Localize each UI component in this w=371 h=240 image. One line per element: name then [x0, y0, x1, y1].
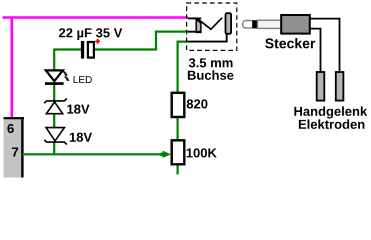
connector box pins 6/7 [4, 117, 25, 178]
wire green: zener 2 to pin 7 wire [53, 142, 55, 155]
value label 100K [187, 148, 217, 157]
dashed outline around jack [187, 3, 237, 50]
cable wire 2 (inner) to left electrode [310, 29, 321, 72]
value label 18V (lower zener) [70, 133, 92, 142]
LED [45, 70, 69, 84]
resistor 820 [172, 93, 185, 117]
capacitor 22µF/35V [81, 41, 94, 59]
wire green: LED chain top, to capacitor left plate [54, 50, 81, 71]
label Elektroden [299, 119, 365, 129]
resistor 100K [172, 140, 185, 164]
plug (Stecker) drawing [243, 15, 310, 34]
wire green: capacitor right plate to jack middle contact [95, 32, 188, 50]
wire green: pin 7 horizontal with arrowhead into 100K [22, 151, 171, 158]
wire green: zener 1 to zener 2 [53, 113, 55, 128]
cable wire 1 (outer) to right electrode [310, 19, 340, 72]
zener diode 18V lower (cathode down) [44, 128, 67, 145]
label 3.5 mm [189, 58, 233, 67]
wire magenta horizontal (pin 6 net to jack tip) [3, 16, 189, 19]
wire green: LED cathode to zener 1 [53, 84, 55, 102]
label Handgelenk [294, 106, 367, 118]
zener diode 18V upper (cathode up) [44, 99, 67, 114]
jack socket 3.5mm (symbol) [188, 13, 231, 41]
value label 18V (upper zener) [67, 105, 89, 114]
electrode right [336, 72, 344, 101]
pin label 6 [7, 124, 13, 133]
value label 820 [187, 99, 208, 108]
LED label [74, 76, 92, 83]
wire green: between 820 and 100K [177, 118, 179, 141]
label Stecker [265, 38, 315, 48]
wire green: jack sleeve terminal to resistor chain [178, 42, 188, 92]
electrode left [317, 72, 325, 101]
polarity plus mark [95, 39, 100, 44]
pin label 7 [12, 148, 18, 157]
wire green: below 100K [177, 165, 179, 175]
wire magenta vertical drop to pin 6 [11, 18, 14, 118]
label Buchse [188, 70, 234, 80]
value label 22 µF 35 V [59, 28, 122, 40]
